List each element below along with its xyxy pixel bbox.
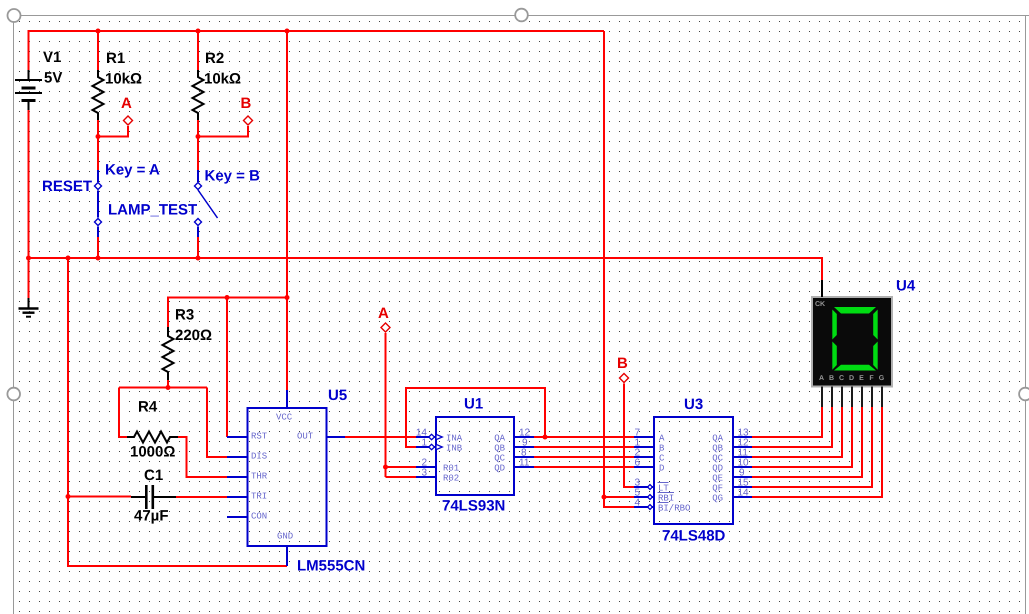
U3 pin QG out stub	[733, 496, 752, 498]
wire U3 QD to display D	[752, 407, 852, 467]
display segment F	[832, 310, 837, 340]
svg-text:1: 1	[421, 438, 427, 449]
svg-text:QC: QC	[494, 454, 505, 464]
resistor R3	[163, 327, 174, 380]
wire C1 TRI vertical	[68, 258, 287, 566]
svg-text:QD: QD	[712, 464, 723, 474]
junction R2 top	[196, 29, 201, 34]
wire QA feedback loop to INB	[406, 388, 545, 447]
wire ground stub	[28, 258, 30, 298]
wire U3 QA to display A	[752, 407, 822, 437]
junction node A R01	[383, 465, 388, 470]
U3 pin labels	[658, 434, 724, 514]
wire R3 top	[168, 298, 287, 328]
U5 pin THR stub	[227, 476, 248, 478]
junction R1 top	[96, 29, 101, 34]
U1 pin R01 stub	[416, 466, 436, 468]
U3 pin QD out stub	[733, 466, 752, 468]
U1 pin R02 stub	[416, 476, 436, 478]
U1 pin QA stub	[514, 436, 534, 438]
svg-text:QB: QB	[712, 444, 723, 454]
svg-text:VCC: VCC	[276, 413, 293, 423]
svg-text:GND: GND	[277, 532, 293, 542]
U1 pin QC stub	[514, 456, 534, 458]
wire QB to U3 B	[534, 446, 634, 448]
svg-text:TRI: TRI	[251, 492, 267, 502]
svg-text:R01: R01	[443, 464, 459, 474]
svg-text:A: A	[819, 375, 824, 382]
svg-text:R2: R2	[205, 50, 224, 67]
node B connector mid	[620, 374, 629, 383]
U5 pin VCC stub	[286, 390, 288, 408]
wire C1 right to TRI	[175, 496, 228, 498]
display segment D	[834, 365, 876, 371]
U1 pin numbers left	[416, 428, 428, 479]
wire OUT to INA	[345, 436, 417, 438]
svg-text:D: D	[849, 375, 854, 382]
svg-text:A: A	[659, 434, 665, 444]
svg-text:QA: QA	[712, 434, 723, 444]
wire VCC to RBI/BI pins	[604, 31, 634, 507]
junction QA feedback	[543, 435, 548, 440]
junction RBI	[602, 495, 607, 500]
junction RST drop	[225, 295, 230, 300]
U3 pin D stub	[634, 466, 654, 468]
svg-text:11: 11	[519, 458, 530, 469]
svg-text:G: G	[879, 375, 885, 382]
U3 pin A stub	[634, 436, 654, 438]
svg-text:74LS93N: 74LS93N	[442, 498, 505, 515]
svg-text:A: A	[121, 95, 132, 112]
svg-text:R3: R3	[175, 307, 194, 324]
svg-text:U1: U1	[464, 396, 483, 413]
wire U3 QE to display E	[752, 407, 862, 477]
ground	[19, 298, 39, 317]
svg-text:V1: V1	[43, 49, 61, 66]
switch S2 wire top	[197, 170, 199, 182]
svg-text:A: A	[378, 305, 389, 322]
U3 overlines	[658, 483, 675, 503]
junction R3 bottom	[166, 385, 171, 390]
junction S2 ground	[196, 256, 201, 261]
svg-text:DIS: DIS	[251, 452, 267, 462]
U3 pin LT stub	[634, 486, 654, 488]
wire U3 QG to display G	[752, 407, 882, 497]
svg-text:U5: U5	[328, 387, 347, 404]
wire RST vertical	[226, 298, 228, 438]
U5 pin OUT stub	[327, 436, 346, 438]
svg-text:10kΩ: 10kΩ	[105, 71, 142, 88]
svg-text:QF: QF	[712, 484, 723, 494]
svg-text:QA: QA	[494, 434, 505, 444]
capacitor C1	[131, 485, 176, 509]
display segment E	[832, 342, 837, 370]
wire VCC top rail	[29, 31, 605, 70]
junction R1 node A	[96, 134, 101, 139]
svg-text:U4: U4	[896, 278, 916, 295]
seven segment display U4 body	[812, 297, 892, 387]
node B connector top	[244, 116, 253, 125]
wire DIS node	[119, 388, 228, 458]
switch S2 blade open	[198, 190, 218, 218]
svg-text:3: 3	[421, 468, 427, 479]
U1 counter box	[436, 417, 514, 495]
svg-text:QB: QB	[494, 444, 505, 454]
U1 pin numbers right	[519, 428, 531, 469]
U5 pin CON stub	[227, 516, 248, 518]
svg-text:6: 6	[635, 458, 641, 469]
U1 pin QB stub	[514, 446, 534, 448]
op-amp U5 timer box	[248, 408, 327, 546]
svg-text:R4: R4	[138, 399, 158, 416]
wire U3 QC to display C	[752, 407, 842, 457]
switch S1 wire bottom	[97, 227, 99, 238]
wire R4 left	[119, 388, 127, 438]
svg-text:RST: RST	[251, 432, 268, 442]
svg-text:R1: R1	[106, 50, 125, 67]
svg-text:B: B	[659, 444, 665, 454]
svg-text:QE: QE	[712, 474, 723, 484]
svg-text:QD: QD	[494, 464, 505, 474]
svg-text:C: C	[839, 375, 844, 382]
junction C1 TRI	[66, 494, 71, 499]
svg-text:BI/RBO: BI/RBO	[658, 504, 690, 514]
svg-text:RESET: RESET	[42, 178, 92, 195]
U1 clock pin INB symbol	[429, 444, 443, 449]
U3 pin QB out stub	[733, 446, 752, 448]
svg-text:B: B	[241, 95, 252, 112]
U3 pin QC out stub	[733, 456, 752, 458]
junction battery ground	[26, 256, 31, 261]
U5 pin labels	[251, 413, 314, 542]
svg-text:U3: U3	[684, 396, 703, 413]
U5 pin TRI stub	[227, 496, 248, 498]
U3 pin C stub	[634, 456, 654, 458]
svg-text:D: D	[659, 464, 664, 474]
svg-text:C: C	[659, 454, 665, 464]
display segment A	[834, 307, 876, 314]
U3 input negation diamonds	[648, 485, 653, 510]
wire battery negative to ground rail	[28, 110, 30, 258]
U3 pin QF out stub	[733, 486, 752, 488]
U3 pin B stub	[634, 446, 654, 448]
wire R4 right to THR	[178, 437, 228, 477]
svg-text:74LS48D: 74LS48D	[662, 528, 726, 545]
svg-text:QG: QG	[712, 494, 723, 504]
svg-text:INB: INB	[446, 444, 463, 454]
wire R1 bottom to switch	[98, 120, 128, 170]
wire R2 top	[197, 31, 199, 70]
svg-text:LM555CN: LM555CN	[297, 558, 365, 575]
wire VCC to U5	[286, 31, 288, 390]
svg-text:E: E	[859, 375, 864, 382]
svg-text:5V: 5V	[44, 70, 62, 87]
svg-text:1000Ω: 1000Ω	[130, 444, 175, 461]
wire switch S1 bottom to ground rail	[97, 237, 99, 258]
wire ground rail	[29, 258, 823, 280]
wire R2 bottom to switch	[198, 120, 248, 170]
junction R2 node B	[196, 134, 201, 139]
display segment letters	[819, 375, 885, 382]
wire node B to LT	[624, 384, 634, 488]
U3 pin numbers right	[738, 428, 750, 499]
svg-text:CK: CK	[815, 301, 825, 308]
junction VCC drop	[285, 29, 290, 34]
svg-text:Key = B: Key = B	[205, 168, 261, 185]
wire U3 QF to display F	[752, 407, 872, 487]
svg-text:Key = A: Key = A	[105, 162, 160, 179]
U3 pin BI/RBO stub	[634, 506, 654, 508]
svg-text:THR: THR	[251, 472, 268, 482]
svg-text:R02: R02	[443, 474, 459, 484]
wire QC to U3 C	[534, 456, 634, 458]
U3 pin QE out stub	[733, 476, 752, 478]
U1 pin INB stub	[416, 446, 436, 448]
wire node A to R01 R02	[386, 333, 417, 477]
U3 pin QA out stub	[733, 436, 752, 438]
svg-text:220Ω: 220Ω	[175, 327, 212, 344]
node A connector mid	[381, 323, 390, 332]
display segment C	[873, 342, 878, 370]
wire U3 QB to display B	[752, 407, 832, 447]
display bottom pins	[822, 387, 882, 408]
U5 pin RST stub	[227, 436, 248, 438]
U1 clock pin INA symbol	[429, 434, 443, 439]
svg-text:10kΩ: 10kΩ	[204, 71, 241, 88]
wire C1 left lead	[68, 496, 131, 498]
display segment B	[873, 310, 878, 340]
svg-text:47µF: 47µF	[134, 508, 169, 525]
svg-text:C1: C1	[144, 467, 163, 484]
U1 pin QD stub	[514, 466, 534, 468]
switch S1 wire top	[97, 170, 99, 182]
svg-text:CON: CON	[251, 512, 267, 522]
switch S1 terminals	[95, 183, 102, 226]
wire QD to U3 D	[534, 466, 634, 468]
U3 pin RBI stub	[634, 496, 654, 498]
U1 pin INA stub	[416, 436, 436, 438]
display CK pin wire	[821, 280, 823, 297]
resistor R1	[93, 70, 104, 120]
wire QA to U3 A with feedback tap	[534, 436, 634, 438]
resistor R4	[127, 432, 178, 443]
svg-text:F: F	[869, 375, 874, 382]
junction VCC U5	[285, 295, 290, 300]
wire R3 bottom	[167, 380, 169, 388]
switch S1 blade closed	[97, 191, 99, 218]
switch S2 terminals	[195, 183, 202, 226]
wire switch S2 bottom to ground rail	[197, 237, 199, 258]
svg-text:LAMP_TEST: LAMP_TEST	[108, 202, 197, 219]
wire R1 top	[97, 31, 99, 70]
node A connector top	[124, 116, 133, 125]
svg-text:14: 14	[738, 488, 750, 499]
svg-text:B: B	[617, 355, 628, 372]
junction C1 column	[66, 256, 71, 261]
U3 pin numbers left	[635, 428, 641, 509]
svg-text:OUT: OUT	[297, 432, 314, 442]
U3 decoder box	[654, 417, 733, 524]
U5 pin DIS stub	[227, 456, 248, 458]
svg-text:B: B	[829, 375, 834, 382]
resistor R2	[193, 70, 204, 120]
svg-text:INA: INA	[446, 434, 463, 444]
junction S1 ground	[96, 256, 101, 261]
svg-text:QC: QC	[712, 454, 723, 464]
battery V1	[15, 70, 42, 110]
switch S2 wire bottom	[197, 227, 199, 238]
svg-text:4: 4	[635, 498, 641, 509]
U1 pin labels	[443, 434, 506, 484]
U5 pin GND stub	[286, 546, 288, 566]
